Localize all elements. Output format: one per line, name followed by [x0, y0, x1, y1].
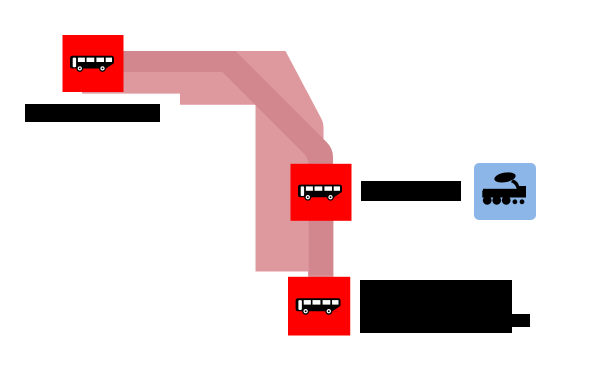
wire: light route leg L2a horizontal lower band: [180, 55, 272, 104]
smoke plume: [494, 171, 517, 184]
wire: light route leg L2b vertical band ending above bus stop 3: [256, 101, 309, 272]
wire: light route leg L1 from bus stop 1 diagonally toward bus stop 2 (sharp top bend): [82, 72, 291, 107]
wire: light route leg L1 tail curving vertical into bus stop 2: [287, 99, 302, 186]
train station icon: [474, 163, 536, 220]
bus stop 3 icon: [288, 277, 350, 336]
wheels: [483, 196, 492, 205]
label bar 3 tab (end of second text line): [512, 314, 530, 327]
wire: dark route leg D from bus stop 1 via 45-degree bend down to bus stop 3 (drawn as polygon): [82, 51, 333, 276]
chimney and cab block: [518, 186, 527, 198]
wire: light route leg R4 bus stop 2 down to bus stop 3: [308, 192, 334, 302]
bus stop 2 icon: [291, 164, 352, 221]
label bar 3 (two-line stop name block, redacted): [360, 280, 512, 333]
boiler body: [483, 189, 526, 198]
bus stop 1 icon: [63, 35, 124, 92]
label bar 1 (stop name, redacted): [25, 104, 160, 122]
label bar 2 (stop name, redacted): [361, 181, 461, 201]
front block: [482, 191, 488, 198]
